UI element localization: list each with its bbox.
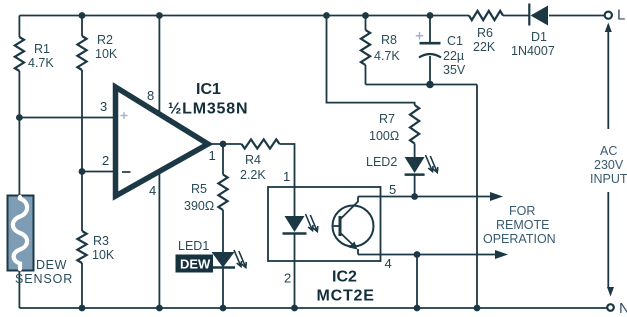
node pin5 LED2	[411, 193, 418, 200]
wire D1 to L terminal	[549, 15, 605, 17]
wire pin8 supply	[158, 16, 160, 114]
resistor R8	[361, 30, 370, 65]
svg-text:22µ: 22µ	[443, 49, 464, 63]
op-amp U1 triangle	[116, 87, 209, 196]
node ground pin4	[156, 305, 163, 312]
wire pin2	[82, 171, 116, 173]
wire pin4 remote line	[358, 254, 499, 256]
svg-text:C1: C1	[447, 34, 463, 48]
terminal L	[605, 12, 612, 19]
svg-text:35V: 35V	[443, 63, 466, 77]
node ground R3	[79, 305, 86, 312]
svg-text:IC2: IC2	[332, 269, 357, 286]
node output junction	[220, 141, 227, 148]
svg-text:R7: R7	[379, 112, 395, 126]
wire top rail	[19, 15, 469, 17]
svg-text:22K: 22K	[473, 40, 496, 54]
svg-text:R2: R2	[97, 33, 113, 47]
svg-text:DEW: DEW	[36, 258, 67, 272]
node top rail dogleg	[323, 12, 330, 19]
svg-text:100Ω: 100Ω	[369, 129, 399, 143]
op-amp plus mark	[121, 112, 128, 119]
svg-text:R6: R6	[477, 26, 493, 40]
node top rail R8	[362, 12, 369, 19]
svg-text:LED1: LED1	[178, 239, 209, 253]
diode D1	[531, 6, 549, 26]
resistor R6	[469, 11, 503, 20]
wire C1 column	[429, 16, 431, 44]
svg-text:1N4007: 1N4007	[511, 44, 555, 58]
svg-text:R5: R5	[191, 182, 207, 196]
svg-text:2: 2	[284, 271, 291, 286]
wire supply dogleg to R7	[327, 16, 415, 106]
node top rail pin8	[156, 12, 163, 19]
svg-text:½LM358N: ½LM358N	[168, 101, 248, 118]
wire R4 to IC2 pin1	[280, 144, 295, 216]
node pin4 branch	[414, 251, 421, 258]
capacitor C1	[420, 42, 441, 45]
svg-text:L: L	[617, 7, 625, 24]
node top rail R2	[79, 12, 86, 19]
svg-text:MCT2E: MCT2E	[317, 288, 375, 305]
resistor R5	[218, 175, 227, 211]
terminal N	[607, 304, 614, 311]
wire LED2 to pin5 node	[414, 175, 416, 197]
wire IC2 LED cathode to ground	[294, 234, 296, 309]
svg-text:D1: D1	[531, 30, 547, 44]
node top rail C1	[427, 12, 434, 19]
node C1 bottom	[426, 81, 434, 89]
wire R7 to LED2	[414, 144, 416, 158]
svg-text:4: 4	[149, 183, 156, 198]
svg-text:390Ω: 390Ω	[184, 199, 214, 213]
svg-text:2: 2	[102, 153, 109, 168]
LED2	[405, 157, 425, 173]
svg-text:4: 4	[385, 256, 392, 271]
svg-text:REMOTE: REMOTE	[496, 218, 549, 232]
dew sensor body	[8, 196, 34, 271]
wire pin4 to ground	[158, 172, 160, 308]
wire left column R1/sensor	[18, 16, 20, 38]
wire R8 column	[365, 16, 367, 31]
wire ground return column	[476, 85, 478, 309]
wire R5 branch	[222, 144, 224, 175]
node pin3 junction	[16, 114, 23, 121]
resistor R3	[77, 231, 86, 263]
svg-text:5: 5	[389, 182, 396, 197]
svg-text:1: 1	[283, 169, 290, 184]
resistor R2	[77, 36, 86, 70]
wire pin3	[19, 117, 116, 119]
node ground return	[474, 305, 481, 312]
wire LED1 to ground	[222, 268, 224, 309]
svg-text:SENSOR: SENSOR	[15, 272, 73, 286]
node pin2 junction	[79, 168, 86, 175]
svg-text:10K: 10K	[92, 248, 115, 262]
svg-text:2.2K: 2.2K	[240, 168, 266, 182]
svg-text:10K: 10K	[95, 47, 118, 61]
svg-text:AC: AC	[600, 144, 617, 158]
node ground pin4 line	[414, 305, 421, 312]
svg-text:OPERATION: OPERATION	[483, 232, 556, 246]
resistor R4	[242, 139, 280, 148]
svg-text:IC1: IC1	[196, 81, 221, 98]
svg-text:R4: R4	[245, 153, 261, 167]
node ground LED1	[220, 305, 227, 312]
node ground IC2 pin2	[291, 305, 298, 312]
resistor R1	[15, 37, 24, 71]
svg-text:R3: R3	[93, 234, 109, 248]
IC2 phototransistor	[333, 206, 374, 247]
AC input line with arrows	[605, 23, 612, 33]
wire R2/R3 column	[81, 16, 83, 37]
svg-text:FOR: FOR	[509, 204, 535, 218]
svg-text:R1: R1	[34, 42, 50, 56]
wire op-amp output node	[208, 143, 242, 145]
svg-text:4.7K: 4.7K	[374, 49, 400, 63]
svg-text:8: 8	[147, 88, 154, 103]
svg-text:4.7K: 4.7K	[28, 56, 54, 70]
resistor R7	[410, 105, 419, 144]
svg-text:LED2: LED2	[366, 155, 397, 169]
svg-text:230V: 230V	[594, 158, 624, 172]
wire pin5 remote line	[358, 196, 494, 198]
wire pin4 to ground	[416, 255, 418, 309]
svg-text:R8: R8	[381, 33, 397, 47]
wire R6 to D1	[503, 15, 530, 17]
wire bottom ground rail	[19, 307, 607, 309]
wire R5 to LED1	[222, 210, 224, 252]
svg-text:3: 3	[100, 99, 107, 114]
arrow remote 2	[495, 250, 508, 259]
arrow remote 1	[490, 192, 503, 201]
svg-text:1: 1	[209, 148, 216, 163]
LED1	[212, 252, 235, 268]
svg-text:DEW: DEW	[180, 257, 211, 272]
op-amp minus mark	[122, 171, 131, 173]
svg-text:INPUT: INPUT	[590, 172, 627, 186]
LED1 DEW badge	[176, 255, 214, 273]
IC2 internal LED	[285, 216, 305, 232]
optocoupler IC2 box	[268, 187, 381, 261]
svg-text:N: N	[619, 300, 627, 317]
wire C1 bottom node	[366, 84, 478, 86]
